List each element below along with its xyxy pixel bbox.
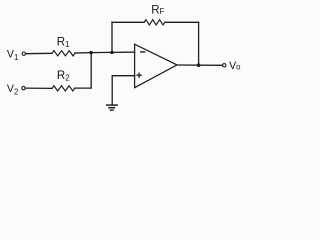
wire RF down to output node — [198, 22, 200, 65]
wire node B up to RF — [111, 22, 113, 52]
svg-text:R1: R1 — [57, 36, 70, 49]
op-amp plus sign — [137, 74, 141, 76]
junction node B (feedback tap) — [110, 51, 113, 54]
op-amp U1 — [135, 44, 177, 87]
junction node A (R1/R2 join) — [89, 51, 92, 54]
wire plus input to ground branch — [112, 76, 134, 105]
wire V1 to R1 — [26, 52, 52, 54]
svg-text:Vo: Vo — [229, 60, 241, 72]
wire op-amp output to Vo — [177, 64, 223, 66]
terminal circle Vo — [223, 64, 226, 67]
terminal circle V2 — [22, 86, 25, 89]
wire RF left — [112, 21, 144, 23]
wire V2 to R2 — [25, 87, 52, 89]
svg-text:R2: R2 — [57, 70, 70, 83]
terminal circle V1 — [22, 52, 25, 55]
wire R1 to op-amp minus input — [75, 51, 135, 54]
svg-text:V1: V1 — [7, 48, 18, 62]
svg-text:RF: RF — [151, 4, 164, 16]
svg-text:V2: V2 — [7, 83, 18, 97]
ground — [107, 104, 117, 106]
junction node output — [197, 63, 201, 67]
op-amp minus sign — [141, 51, 145, 53]
resistor R2 — [52, 86, 75, 91]
wire R2 up to node A — [75, 53, 92, 89]
resistor RF — [144, 20, 165, 25]
wire RF right — [165, 21, 199, 23]
resistor R1 — [52, 51, 75, 56]
